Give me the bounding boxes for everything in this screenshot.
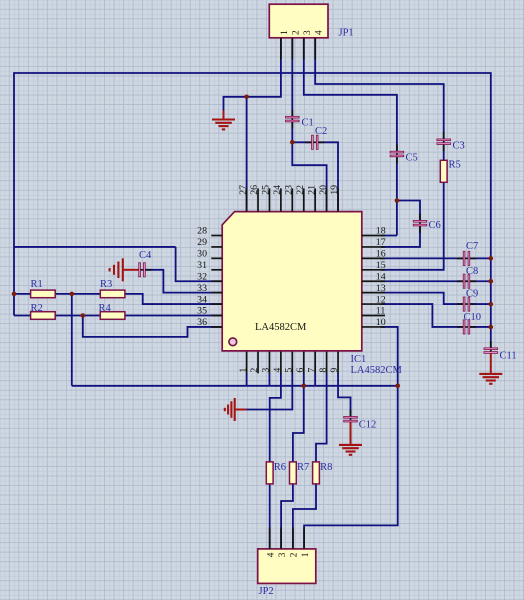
capacitor C1 bbox=[286, 110, 300, 129]
capacitor C7 bbox=[457, 251, 476, 265]
svg-text:26: 26 bbox=[249, 185, 260, 195]
svg-text:21: 21 bbox=[306, 185, 317, 195]
pin IC.27 bbox=[246, 188, 248, 211]
wire C3 to R5 bbox=[443, 145, 445, 161]
wire C8 to bus bbox=[469, 280, 491, 282]
wire IC pin 10 down to JP2 pin 1 bbox=[304, 327, 398, 549]
wire junction down to IC pin 27 bbox=[246, 97, 248, 212]
wire IC pin 14 to C8 bbox=[381, 280, 464, 282]
pin IC.22 bbox=[303, 188, 305, 211]
capacitor C11 bbox=[484, 341, 498, 353]
wire to IC pin 18 bbox=[381, 235, 397, 237]
wire junction to C6 top bbox=[397, 201, 420, 221]
svg-text:C9: C9 bbox=[466, 289, 478, 300]
svg-text:11: 11 bbox=[376, 306, 386, 317]
pin IC.3 bbox=[268, 352, 270, 374]
pin JP1.3 bbox=[303, 38, 305, 60]
wire R3 right jog down to IC pin 34 bbox=[125, 294, 222, 304]
capacitor C4 bbox=[139, 263, 152, 277]
wire riser from R1 junction down to bottom net bbox=[71, 294, 73, 386]
resistor R1 bbox=[31, 290, 56, 298]
pin IC.17 bbox=[362, 246, 385, 248]
pin IC.12 bbox=[362, 303, 385, 305]
wire JP1 pin3 over to C5 bbox=[304, 37, 397, 151]
pin IC.1 bbox=[246, 352, 248, 374]
svg-text:16: 16 bbox=[376, 249, 386, 260]
wire IC pin 12 jog down to C10 bbox=[381, 304, 464, 327]
ground (C4, rotated) bbox=[110, 258, 123, 281]
pin IC.4 bbox=[280, 352, 282, 374]
wire IC pin 4 jog to R6 bbox=[270, 373, 281, 462]
pin IC.13 bbox=[362, 292, 385, 294]
ground stem (C11) bbox=[490, 353, 492, 374]
wire C4 right jog down to IC pin 33 bbox=[145, 270, 222, 293]
pin IC.2 bbox=[257, 352, 259, 374]
svg-text:C6: C6 bbox=[429, 220, 441, 231]
pin IC.9 bbox=[337, 352, 339, 374]
svg-text:JP2: JP2 bbox=[259, 586, 274, 597]
pin IC.35 bbox=[211, 315, 222, 317]
wire IC pin 13 jog down to C9 bbox=[381, 293, 464, 304]
pin JP2.4 bbox=[269, 528, 271, 549]
svg-text:C10: C10 bbox=[464, 312, 482, 323]
junction C5/C6 branch bbox=[395, 198, 400, 203]
svg-text:1: 1 bbox=[301, 552, 311, 557]
wire from left rail toward pin 32 jog (row 29) bbox=[14, 246, 176, 248]
svg-text:23: 23 bbox=[284, 185, 295, 195]
svg-text:R4: R4 bbox=[99, 303, 112, 314]
wire C1 to junction bbox=[291, 122, 293, 143]
wire C5 down to pin18 branch bbox=[396, 157, 398, 236]
svg-text:29: 29 bbox=[197, 237, 207, 248]
wire C6 bottom to IC pin 17 bbox=[381, 226, 420, 247]
wire C9 to bus bbox=[469, 303, 491, 305]
wire jog down to pin 32 bbox=[176, 247, 222, 281]
svg-text:4: 4 bbox=[272, 368, 283, 373]
svg-text:C8: C8 bbox=[466, 266, 478, 277]
resistor R5 bbox=[440, 160, 447, 182]
wire left rail to R1 left bbox=[14, 293, 31, 295]
wire IC pin 1 down to bottom run bbox=[246, 373, 248, 386]
svg-text:LA4582CM: LA4582CM bbox=[351, 365, 403, 376]
svg-text:C5: C5 bbox=[406, 152, 418, 163]
pin IC.25 bbox=[268, 188, 270, 211]
junction bottom run / JP2.1 riser bbox=[395, 384, 400, 389]
capacitor C3 bbox=[437, 132, 451, 151]
wire IC pin 3 down to bottom run bbox=[268, 373, 270, 386]
svg-text:3: 3 bbox=[303, 30, 313, 35]
svg-text:32: 32 bbox=[197, 271, 207, 282]
svg-text:C7: C7 bbox=[466, 241, 478, 252]
wire main rail: left column, top run, right bus bbox=[14, 73, 491, 348]
wire JP1 pin1 down to ground corner bbox=[224, 37, 281, 112]
ground (below C11) bbox=[479, 374, 502, 384]
junction C1/C2/pin20 bbox=[290, 140, 295, 145]
svg-text:30: 30 bbox=[197, 249, 207, 260]
pin IC.15 bbox=[362, 269, 385, 271]
svg-text:25: 25 bbox=[261, 185, 272, 195]
svg-text:35: 35 bbox=[197, 306, 207, 317]
resistor R4 bbox=[100, 312, 125, 320]
pin IC.33 bbox=[211, 292, 222, 294]
svg-text:3: 3 bbox=[278, 552, 288, 557]
svg-text:14: 14 bbox=[376, 271, 386, 282]
resistor R8 bbox=[313, 462, 320, 484]
svg-text:3: 3 bbox=[261, 368, 272, 373]
svg-text:R2: R2 bbox=[31, 303, 43, 314]
capacitor C5 bbox=[390, 145, 404, 164]
wire R4 right to IC pin 35 bbox=[125, 315, 222, 317]
wire IC pin 8 jog to R8 bbox=[316, 373, 327, 462]
junction R2/R4/pin36 riser bbox=[81, 313, 86, 318]
wire JP1 pin2 down to C1 bbox=[291, 37, 293, 117]
pin IC.28 bbox=[211, 235, 222, 237]
svg-text:27: 27 bbox=[238, 185, 249, 195]
pin JP1.2 bbox=[291, 38, 293, 60]
capacitor C10 bbox=[457, 320, 476, 334]
junction bus/C9 bbox=[489, 302, 494, 307]
svg-text:7: 7 bbox=[306, 368, 317, 373]
svg-text:12: 12 bbox=[376, 294, 386, 305]
junction bus/C10 bbox=[489, 325, 494, 330]
svg-text:2: 2 bbox=[290, 552, 300, 557]
svg-text:8: 8 bbox=[318, 368, 329, 373]
pin JP1.4 bbox=[314, 38, 316, 60]
wire IC pin 16 to C7 bbox=[381, 257, 464, 259]
pin IC.20 bbox=[326, 188, 328, 211]
ground stem (JP1 area) bbox=[223, 111, 225, 120]
svg-text:19: 19 bbox=[329, 185, 340, 195]
svg-text:LA4582CM: LA4582CM bbox=[255, 322, 307, 333]
pin IC.29 bbox=[211, 246, 222, 248]
svg-text:24: 24 bbox=[272, 185, 283, 195]
pin IC.6 bbox=[303, 352, 305, 374]
pin IC.5 bbox=[291, 352, 293, 374]
svg-text:R3: R3 bbox=[100, 279, 112, 290]
svg-text:36: 36 bbox=[197, 317, 207, 328]
pin JP2.3 bbox=[280, 528, 282, 549]
svg-text:C11: C11 bbox=[500, 350, 517, 361]
svg-text:IC1: IC1 bbox=[351, 354, 367, 365]
svg-text:1: 1 bbox=[280, 30, 290, 35]
svg-text:9: 9 bbox=[329, 368, 340, 373]
pin IC.16 bbox=[362, 257, 385, 259]
capacitor C9 bbox=[457, 297, 476, 311]
svg-text:4: 4 bbox=[267, 552, 277, 557]
svg-text:28: 28 bbox=[197, 226, 207, 237]
svg-text:5: 5 bbox=[284, 368, 295, 373]
wire junction down around to IC pin 36 bbox=[83, 316, 222, 337]
pin IC.18 bbox=[362, 235, 385, 237]
svg-text:10: 10 bbox=[376, 317, 386, 328]
svg-text:C12: C12 bbox=[359, 419, 377, 430]
wire R6 down to JP2 pin 4 bbox=[269, 484, 271, 549]
pin JP2.1 bbox=[303, 528, 305, 549]
pin IC.14 bbox=[362, 280, 385, 282]
capacitor C6 bbox=[413, 214, 427, 233]
pin IC.8 bbox=[326, 352, 328, 374]
svg-text:34: 34 bbox=[197, 294, 207, 305]
pin IC.32 bbox=[211, 280, 222, 282]
wire R7 down jog to JP2 pin 3 bbox=[281, 484, 293, 549]
wire C2 right down to IC pin 19 bbox=[318, 142, 338, 212]
pin IC.7 bbox=[314, 352, 316, 374]
pin IC.11 bbox=[362, 315, 385, 317]
wire R1 right to R3 left bbox=[55, 293, 100, 295]
wire IC pin 9 jog to C12 bbox=[338, 373, 350, 416]
wire junction jog to IC pin 20 bbox=[292, 142, 326, 212]
junction rail/R1 bbox=[12, 292, 17, 297]
wire C10 to bus bbox=[469, 326, 491, 328]
wire IC pin 7 down to bottom run bbox=[314, 373, 316, 386]
svg-text:13: 13 bbox=[376, 283, 386, 294]
ground (near JP1) bbox=[212, 120, 235, 130]
svg-text:15: 15 bbox=[376, 260, 386, 271]
svg-text:1: 1 bbox=[238, 368, 249, 373]
svg-text:2: 2 bbox=[292, 30, 302, 35]
pin IC.23 bbox=[291, 188, 293, 211]
wire IC pin 6 down through junction to R7 bbox=[293, 373, 304, 462]
op-amp IC U1 LA4582CM body bbox=[222, 212, 362, 351]
pin IC.19 bbox=[337, 188, 339, 211]
svg-text:R7: R7 bbox=[297, 462, 309, 473]
wire R5 down to IC pin 15 bbox=[381, 182, 444, 269]
wire R8 down jog to JP2 pin 2 bbox=[293, 484, 316, 549]
pin IC.31 bbox=[211, 269, 222, 271]
svg-text:4: 4 bbox=[315, 30, 325, 35]
pin JP1.1 bbox=[280, 38, 282, 60]
svg-text:18: 18 bbox=[376, 226, 386, 237]
junction pin27/ground/JP1.1 bbox=[244, 95, 249, 100]
svg-text:C2: C2 bbox=[315, 126, 327, 137]
ground (bottom, rotated) bbox=[225, 398, 235, 421]
wire junction to C2 left bbox=[292, 141, 312, 143]
pin IC.24 bbox=[280, 188, 282, 211]
capacitor C2 bbox=[305, 135, 324, 149]
svg-text:31: 31 bbox=[197, 260, 207, 271]
wire JP1 pin4 over to C3 bbox=[315, 37, 444, 139]
pin IC.36 bbox=[211, 326, 222, 328]
svg-text:C1: C1 bbox=[302, 118, 314, 129]
ground stem (C4) bbox=[123, 269, 139, 271]
pin IC.34 bbox=[211, 303, 222, 305]
svg-text:33: 33 bbox=[197, 283, 207, 294]
junction R1/R3/riser bbox=[70, 292, 75, 297]
svg-text:R5: R5 bbox=[449, 160, 461, 171]
resistor R2 bbox=[31, 312, 56, 320]
resistor R3 bbox=[100, 290, 125, 298]
svg-text:22: 22 bbox=[295, 185, 306, 195]
ground stem (C12) bbox=[350, 422, 352, 445]
pin JP2.2 bbox=[292, 528, 294, 549]
svg-text:17: 17 bbox=[376, 237, 386, 248]
ground stem (bottom, rotated) bbox=[235, 409, 247, 411]
capacitor C8 bbox=[457, 274, 476, 288]
svg-text:R1: R1 bbox=[31, 279, 43, 290]
connector JP2 bbox=[258, 549, 316, 584]
wire long bottom run bbox=[72, 385, 398, 387]
svg-text:JP1: JP1 bbox=[339, 28, 354, 39]
junction pin6 column / bottom run bbox=[301, 384, 306, 389]
svg-text:20: 20 bbox=[318, 185, 329, 195]
svg-text:2: 2 bbox=[249, 368, 260, 373]
wire left rail to R2 left bbox=[14, 315, 31, 317]
svg-text:6: 6 bbox=[295, 368, 306, 373]
pin IC.10 bbox=[362, 326, 385, 328]
wire IC pin 5 down to ground row bbox=[246, 373, 293, 410]
connector JP1 bbox=[269, 4, 328, 38]
resistor R6 bbox=[266, 462, 273, 484]
wire C7 to bus bbox=[469, 257, 491, 259]
svg-text:C4: C4 bbox=[139, 250, 152, 261]
wire R2 right to R4 left bbox=[55, 315, 100, 317]
pin IC.21 bbox=[314, 188, 316, 211]
svg-text:C3: C3 bbox=[453, 141, 465, 152]
svg-text:R6: R6 bbox=[274, 462, 286, 473]
pin IC.30 bbox=[211, 257, 222, 259]
junction bus/C8 bbox=[489, 279, 494, 284]
ground (below C12) bbox=[339, 445, 362, 455]
svg-text:R8: R8 bbox=[320, 462, 332, 473]
capacitor C12 bbox=[344, 410, 358, 422]
IC pin-1 indicator circle bbox=[229, 338, 237, 346]
junction bus/C7 bbox=[489, 256, 494, 261]
resistor R7 bbox=[290, 462, 297, 484]
pin IC.26 bbox=[257, 188, 259, 211]
